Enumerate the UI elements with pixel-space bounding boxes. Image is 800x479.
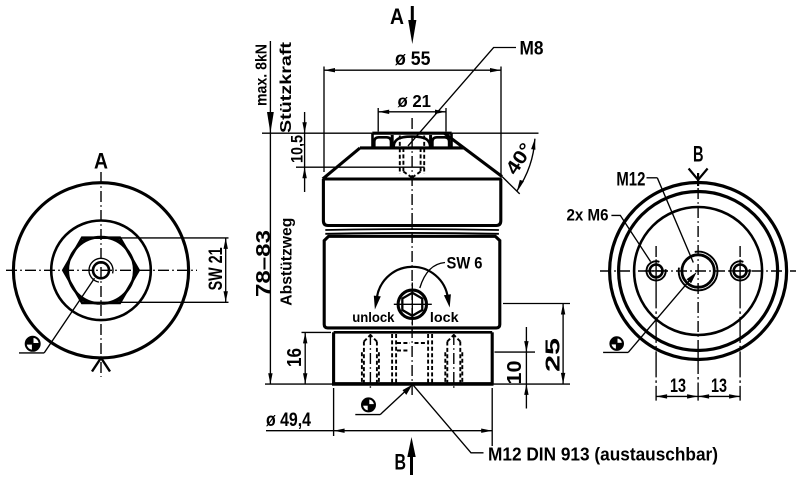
svg-text:A: A [94, 149, 108, 174]
datum target leader view A [44, 278, 94, 353]
datum target symbol view B [610, 337, 624, 351]
M6 left hole [650, 265, 663, 278]
second circle view B [619, 192, 778, 351]
dim 25 [562, 304, 564, 384]
horizontal centerline view A [6, 269, 197, 271]
svg-text:unlock: unlock [352, 309, 394, 325]
nut right side [450, 133, 453, 148]
SW21 arrow down [224, 291, 228, 302]
ext line ø55 left [323, 67, 325, 173]
joint gap lines [325, 228, 499, 231]
M6 hole right hidden [445, 334, 462, 390]
slant extension for 40° [502, 177, 520, 194]
rotation arc [377, 267, 448, 301]
SW21 top extension line [121, 237, 229, 239]
bottom open view arrow view A [92, 358, 110, 372]
ext line 10,5 bottom [296, 166, 425, 168]
svg-text:Stützkraft: Stützkraft [278, 41, 295, 133]
ext line nut top left [262, 132, 372, 134]
datum target underline view A [19, 352, 44, 354]
flange bottom edge [332, 382, 494, 386]
force arrow / 78-83 dim line [269, 41, 271, 384]
svg-text:B: B [693, 142, 704, 167]
rotation arrow left [374, 296, 381, 310]
M12 center hole [682, 255, 714, 287]
flange left side [332, 332, 335, 384]
flange right side [491, 332, 494, 384]
nut top edge [372, 132, 451, 135]
svg-text:ø 55: ø 55 [395, 49, 431, 70]
flange bottom extension left [265, 383, 334, 385]
cone base edge [323, 177, 502, 180]
SW21 arrow up [224, 238, 228, 249]
svg-text:13: 13 [711, 376, 727, 397]
cone top edge [360, 146, 464, 149]
dim line ø55 [324, 69, 501, 71]
outer circle view B [610, 183, 787, 360]
center hole circle view A [93, 262, 109, 278]
svg-text:78–83: 78–83 [253, 230, 275, 297]
datum target underline middle [355, 414, 380, 416]
cone right slant [444, 133, 502, 176]
datum target underline view B [603, 351, 628, 353]
socket crosshair [394, 303, 432, 305]
SW6 socket circle [398, 290, 426, 318]
svg-text:10,5: 10,5 [288, 135, 307, 163]
hex nut SW21 view A [63, 238, 138, 303]
outer circle (ø55 body) view A [13, 183, 188, 358]
dim 13 13 [656, 395, 740, 397]
svg-text:M12: M12 [616, 170, 645, 191]
vertical centerline view A [100, 172, 102, 377]
svg-text:25: 25 [543, 338, 565, 372]
flange bottom extension right [492, 383, 570, 385]
datum target symbol view A [25, 336, 40, 351]
svg-text:SW 21: SW 21 [206, 247, 227, 290]
78-83 bottom arrow [268, 373, 272, 384]
svg-text:max. 8kN: max. 8kN [254, 44, 271, 106]
svg-text:B: B [395, 450, 407, 475]
ext line ø55/40° right [500, 67, 502, 178]
svg-text:2x M6: 2x M6 [567, 206, 609, 225]
view direction arrow B bottom [410, 452, 413, 475]
leader SW 6 [420, 263, 445, 289]
force arrowhead [267, 112, 274, 133]
ext line nut top right to 40° [452, 132, 539, 134]
nut chamfer circle view A [68, 237, 134, 303]
dim line 10,5 [304, 112, 306, 192]
main centerline middle view [411, 118, 413, 397]
svg-text:10: 10 [504, 361, 526, 385]
cone left slant [323, 148, 360, 179]
svg-text:ø 21: ø 21 [398, 91, 432, 111]
datum target leader middle [380, 388, 409, 415]
dim line ø21 [378, 111, 446, 113]
svg-text:A: A [390, 4, 404, 29]
svg-text:ø 49,4: ø 49,4 [266, 410, 311, 431]
horizontal centerline view B [600, 270, 796, 272]
hex nut corner chamfer arcs view A [66, 238, 136, 303]
view direction arrow A [411, 6, 414, 26]
dim 10 [525, 327, 527, 409]
nut left side [371, 133, 374, 148]
dim ø49,4 [333, 388, 335, 436]
dim 16 line [304, 332, 306, 384]
svg-text:lock: lock [430, 309, 459, 325]
ext line 25 top [503, 303, 570, 305]
ext line 10 top [495, 351, 536, 353]
M6 right centerline [729, 270, 752, 272]
thread arc view A [89, 258, 113, 282]
40° dimension arc [517, 139, 535, 191]
svg-text:Abstützweg: Abstützweg [279, 218, 296, 306]
M8 drill tip dashed [403, 172, 412, 178]
datum target symbol middle [362, 398, 376, 412]
flange top edge [334, 331, 493, 334]
SW21 dimension line [225, 238, 227, 302]
vertical centerline view B [697, 188, 699, 352]
svg-text:M8: M8 [520, 39, 544, 60]
open view arrow B [689, 169, 708, 180]
upper cylinder outline [323, 179, 500, 226]
M8 thread dashed lines [399, 136, 401, 175]
nut face arcs [374, 137, 391, 148]
M6 hole left hidden [362, 334, 379, 390]
svg-text:13: 13 [670, 376, 686, 397]
ext 16 top [302, 331, 332, 333]
grub screw leader to label [413, 385, 484, 453]
svg-text:16: 16 [284, 348, 306, 367]
svg-text:M12 DIN 913 (austauschbar): M12 DIN 913 (austauschbar) [488, 445, 718, 465]
nut corner edges [391, 135, 394, 148]
datum target leader view B [628, 279, 690, 352]
M12 hole hidden [392, 334, 432, 384]
SW21 bottom extension line [121, 301, 229, 303]
M6 left centerline [645, 270, 668, 272]
inner cylinder circle view A [51, 220, 151, 320]
svg-text:SW 6: SW 6 [447, 255, 483, 273]
M6 right hole [734, 265, 747, 278]
rotation arrow right [444, 294, 451, 307]
SW6 hex socket [402, 293, 422, 316]
lower cylinder outline [324, 236, 500, 328]
ext lines ø21 [377, 108, 379, 132]
third circle view B [634, 207, 762, 335]
leader M8 [408, 48, 516, 147]
